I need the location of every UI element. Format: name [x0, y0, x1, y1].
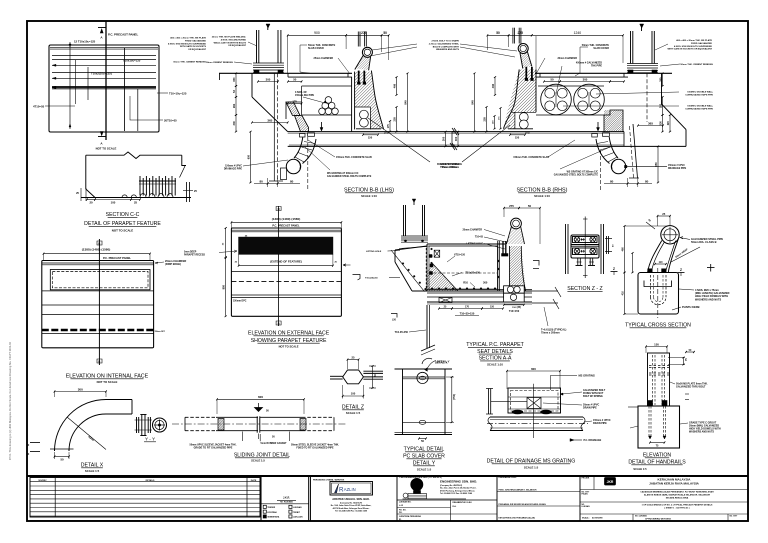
svg-text:P.C. PRECAST PANEL: P.C. PRECAST PANEL [108, 33, 138, 37]
svg-text:DETAIL Y: DETAIL Y [437, 360, 450, 364]
grating clamp bolts [512, 410, 524, 415]
seat detail top dim [504, 207, 519, 209]
svg-text:LIFTING HOLE: LIFTING HOLE [366, 251, 382, 253]
svg-text:110: 110 [659, 261, 664, 264]
svg-text:(750): (750) [452, 394, 456, 400]
svg-text:No. 12A, Jalan Setia Prima U13: No. 12A, Jalan Setia Prima U13/P, Setia … [331, 504, 372, 507]
detail Z stub lines [330, 375, 343, 377]
svg-text:275: 275 [518, 31, 524, 35]
svg-text:350: 350 [232, 77, 236, 82]
svg-text:LAIN-LAIN: LAIN-LAIN [293, 516, 303, 519]
svg-text:R.A.: R.A. [453, 505, 457, 508]
Y-Y side bars [136, 417, 138, 433]
consultant sign panel [579, 476, 581, 521]
svg-text:GRADE TO FIT GALVANIZED PIPE: GRADE TO FIT GALVANIZED PIPE [194, 447, 233, 450]
svg-text:JABATAN KERJA RAYA MALAYSIA: JABATAN KERJA RAYA MALAYSIA [649, 482, 700, 486]
extend of feature dim [239, 265, 333, 267]
LHS right dim chains [396, 77, 398, 95]
svg-text:(35): (35) [525, 132, 530, 135]
svg-text:20mm THK. MS PLATE WELDED,: 20mm THK. MS PLATE WELDED, [212, 36, 247, 39]
svg-text:LUKISAN: LUKISAN [582, 505, 591, 508]
handrail post [648, 353, 670, 406]
JKR logo [605, 478, 616, 486]
svg-text:400 x 400 x 20mm THK. MS PLATE: 400 x 400 x 20mm THK. MS PLATE [676, 39, 712, 42]
svg-text:LUKISAN NO.: LUKISAN NO. [399, 501, 412, 504]
section Z-Z rails [565, 224, 567, 274]
svg-text:BOLT W/ SPRING: BOLT W/ SPRING [583, 395, 603, 398]
svg-text:40170 Shah Alam, Selangor Daru: 40170 Shah Alam, Selangor Darul Ehsan. [333, 507, 370, 510]
svg-text:P.C. PRECAST PANEL: P.C. PRECAST PANEL [103, 256, 131, 260]
LHS slab right end dim 300 [445, 132, 447, 147]
RHS precast panel elevation [630, 31, 632, 64]
seat detail panel inner face [497, 241, 499, 291]
svg-text:B: B [278, 207, 280, 211]
svg-text:DRAINAGE PIPE: DRAINAGE PIPE [668, 167, 687, 170]
svg-text:80: 80 [260, 179, 264, 183]
svg-text:T10=10c=125: T10=10c=125 [169, 92, 187, 96]
svg-text:AZLIN: AZLIN [344, 487, 356, 492]
architect RAZLIN panel [310, 476, 312, 521]
LHS 3 pipes pyramid [319, 108, 326, 115]
svg-text:REKABENTUK OLEH: REKABENTUK OLEH [453, 501, 473, 504]
svg-text:255: 255 [482, 117, 486, 122]
RHS deck right edge [661, 73, 663, 104]
svg-text:255: 255 [392, 117, 396, 122]
svg-text:150mm THK. CONCRETE SLAB: 150mm THK. CONCRETE SLAB [336, 156, 372, 159]
RHS bottom dim 80/80 [604, 183, 652, 185]
LHS post neck and top circle [362, 47, 372, 57]
external face dashed line [231, 280, 341, 282]
plan view of precast parapet panel [49, 45, 159, 132]
handrail right dims [683, 358, 685, 365]
svg-text:20: 20 [89, 200, 93, 204]
RHS deck top line [535, 72, 672, 74]
svg-text:Y - Y: Y - Y [145, 437, 155, 442]
svg-text:PENGARAH JKR NEGERI SELANGOR D: PENGARAH JKR NEGERI SELANGOR DARUL EHSAN [499, 503, 547, 506]
cross section anchor U bracket [644, 281, 672, 287]
seat detail parapet post [511, 218, 522, 229]
svg-text:410: 410 [621, 291, 624, 296]
title block top heavy line [27, 475, 748, 477]
svg-text:330: 330 [658, 121, 662, 126]
svg-text:SCALE 1:10: SCALE 1:10 [487, 363, 503, 367]
cross section base block [638, 273, 679, 315]
svg-text:SCALE 1:10: SCALE 1:10 [534, 194, 550, 198]
slab cover lifting hole circle [417, 372, 428, 383]
svg-text:50: 50 [496, 31, 500, 35]
svg-text:TENDER: TENDER [267, 507, 275, 509]
svg-text:SCALE 1:5: SCALE 1:5 [633, 467, 647, 471]
LHS precast panel elevation above deck [256, 30, 258, 63]
svg-text:1240: 1240 [574, 31, 582, 35]
sliding joint coupling gap [256, 416, 258, 432]
svg-text:CORRUGATED HDPE PIPE: CORRUGATED HDPE PIPE [685, 93, 713, 96]
svg-text:350: 350 [658, 77, 662, 82]
RHS opening lines [538, 85, 604, 87]
svg-text:J.K.R.: J.K.R. [283, 497, 290, 500]
svg-text:50: 50 [383, 31, 387, 35]
svg-text:OR EQUIVALENT: OR EQUIVALENT [228, 44, 246, 47]
internal face lines [42, 290, 154, 292]
svg-text:P.E.: P.E. [399, 512, 403, 514]
svg-text:DRAINAGE PIPE: DRAINAGE PIPE [224, 168, 243, 171]
svg-text:50mm CEMENT RENDING: 50mm CEMENT RENDING [206, 62, 233, 64]
svg-text:150mm # UPVC: 150mm # UPVC [668, 165, 685, 167]
LHS deck slab band [288, 131, 455, 133]
RHS pipe hidden centerline [600, 150, 602, 190]
svg-text:150MM # DOUBLE WALL: 150MM # DOUBLE WALL [687, 91, 713, 94]
svg-text:T10x2(10c=125): T10x2(10c=125) [91, 72, 112, 76]
svg-text:T10x(10)=50: T10x(10)=50 [365, 278, 378, 280]
svg-text:T10x35=150: T10x35=150 [465, 271, 480, 275]
Y-Y circle [153, 418, 167, 432]
LHS drainage elbow pipe with end circle [303, 139, 317, 164]
svg-text:WS GRATING AT 300mm C/C: WS GRATING AT 300mm C/C [327, 172, 359, 175]
svg-text:ENGINEERING SDN. BHD.: ENGINEERING SDN. BHD. [440, 479, 477, 483]
svg-text:6T10=150: 6T10=150 [454, 254, 466, 257]
svg-text:WASHERS AND NUTS: WASHERS AND NUTS [695, 298, 721, 301]
RHS parapet drain holes [519, 113, 528, 122]
svg-text:849: 849 [403, 100, 407, 105]
seat detail bottom slab rows [427, 289, 532, 291]
svg-text:4 NOS. M16 ANCHORED: 4 NOS. M16 ANCHORED [221, 38, 247, 41]
svg-text:2 NOS. BOLT TO U SHAPE: 2 NOS. BOLT TO U SHAPE [431, 40, 459, 43]
RHS dim chains left [474, 73, 476, 131]
grating side frame [488, 389, 490, 415]
svg-text:50: 50 [421, 439, 424, 443]
svg-text:Tel: 03-8060 1133 Fax: 03-806: Tel: 03-8060 1133 Fax: 03-8060 1144 [440, 492, 473, 495]
RHS edge beam elevation [633, 124, 638, 178]
LHS grating bolt arrow [321, 122, 323, 130]
seat detail inner lines [429, 246, 498, 289]
svg-text:150mm DPC: 150mm DPC [233, 300, 247, 302]
svg-text:300: 300 [583, 77, 588, 81]
svg-text:R10: R10 [463, 280, 468, 284]
svg-text:KETUA PENOLONG PENGARAH (JALAN: KETUA PENOLONG PENGARAH (JALAN) [499, 517, 536, 520]
detail X bottom dim [55, 456, 70, 458]
sliding joint pipe [185, 416, 216, 418]
RHS big pipes 450mm with HDPE ducts [541, 84, 572, 115]
svg-text:DATE: DATE [251, 479, 257, 482]
svg-text:PWD ENGINEERING SDN. BHD. (CO.: PWD ENGINEERING SDN. BHD. (CO. 456789-X) [400, 476, 443, 479]
svg-text:50: 50 [60, 457, 64, 461]
svg-text:600: 600 [531, 367, 536, 371]
svg-text:20mm CHAMFER: 20mm CHAMFER [557, 57, 577, 60]
detail X callout [422, 358, 432, 364]
svg-text:SCALE 1:5: SCALE 1:5 [524, 466, 539, 470]
svg-text:L-05: L-05 [399, 505, 403, 507]
svg-text:NOT TO SCALE: NOT TO SCALE [112, 229, 134, 233]
svg-text:( SHEET 1 : CD/TYP/2.01 ): ( SHEET 1 : CD/TYP/2.01 ) [665, 508, 690, 510]
svg-text:50: 50 [293, 77, 297, 81]
svg-text:150mm DPC: 150mm DPC [155, 331, 166, 333]
svg-text:150mm # UPVC: 150mm # UPVC [225, 166, 242, 168]
svg-text:TERBIT: TERBIT [293, 512, 301, 514]
svg-text:X: X [28, 452, 30, 456]
svg-text:170: 170 [465, 305, 470, 308]
seat detail main outline [427, 243, 505, 245]
external face panel rectangle [231, 228, 341, 316]
svg-text:150mm THK. CONCRETE SLAB: 150mm THK. CONCRETE SLAB [513, 156, 549, 159]
panel joint line [124, 48, 126, 131]
svg-text:150: 150 [515, 135, 520, 139]
RHS pipe leader dot [625, 165, 627, 167]
svg-text:JURUTERA PERUNDING: JURUTERA PERUNDING [399, 515, 422, 518]
svg-text:NOT TO SCALE: NOT TO SCALE [279, 345, 299, 349]
svg-text:20T10=05: 20T10=05 [164, 119, 177, 123]
svg-text:MS GRATING: MS GRATING [579, 374, 595, 378]
RAZLIN logo [335, 484, 339, 493]
svg-text:150: 150 [654, 342, 659, 346]
svg-text:WITH GATE IN SOCKETS: WITH GATE IN SOCKETS [180, 45, 207, 48]
svg-text:ARKITEK UNGGUL SDN. BHD.: ARKITEK UNGGUL SDN. BHD. [332, 497, 370, 501]
svg-text:NOT TO SCALE: NOT TO SCALE [97, 380, 118, 384]
svg-text:P.C. DRAINAGE: P.C. DRAINAGE [584, 439, 602, 442]
svg-text:25: 25 [662, 212, 665, 216]
svg-text:Z: Z [613, 267, 615, 271]
svg-text:GALVANIZED STEEL BOLTS COMPLET: GALVANIZED STEEL BOLTS COMPLETE [554, 174, 599, 177]
svg-text:4 NOS. M16 MS BOLTS SUSPENDED: 4 NOS. M16 MS BOLTS SUSPENDED [168, 42, 206, 45]
svg-text:B: B [98, 241, 100, 245]
svg-text:LUKISAN: LUKISAN [293, 506, 302, 509]
RHS grating bolt arrow [597, 122, 599, 130]
internal face recess [50, 270, 150, 290]
seat detail left wall below [426, 305, 428, 348]
svg-text:80: 80 [290, 179, 294, 183]
svg-text:P.C. PRECAST PANEL: P.C. PRECAST PANEL [272, 224, 300, 228]
seat detail precast post [403, 205, 405, 236]
svg-text:4T10=05: 4T10=05 [33, 105, 45, 109]
svg-text:WS GRATING AT 300mm C/C: WS GRATING AT 300mm C/C [567, 171, 599, 174]
svg-text:WITH GATE IN SOCKETS OR EQUIVA: WITH GATE IN SOCKETS OR EQUIVALENT [667, 48, 712, 51]
svg-text:4 NOS. M16 MS BOLTS SUSPENDED: 4 NOS. M16 MS BOLTS SUSPENDED [674, 45, 712, 48]
svg-text:NO. LUKISAN: NO. LUKISAN [635, 515, 647, 518]
svg-text:PARAPET RECESS: PARAPET RECESS [184, 254, 205, 257]
svg-text:SCALE 1:10: SCALE 1:10 [361, 194, 377, 198]
grating assembly [508, 388, 561, 413]
section Z-Z bolt stems below [577, 258, 579, 266]
texture waves [122, 195, 136, 198]
LHS post anchor bolts [358, 71, 360, 84]
svg-text:SECARA REKA & BINA: SECARA REKA & BINA [666, 496, 689, 499]
seat slab right break [532, 290, 558, 292]
svg-text:80: 80 [645, 179, 649, 183]
RHS drainage elbow pipe with end circle [596, 139, 610, 164]
detail X radius leader [67, 417, 106, 450]
svg-text:FIXED GALVANIZED: FIXED GALVANIZED [185, 39, 206, 42]
svg-text:P.T.O. This drawing is (c) JKR: P.T.O. This drawing is (c) JKR Malaysia.… [8, 341, 12, 460]
grating top dim [507, 370, 560, 372]
svg-text:25mm CHAMFER: 25mm CHAMFER [462, 228, 482, 231]
svg-text:T10x10c=125: T10x10c=125 [123, 59, 141, 63]
svg-text:T10=05: T10=05 [475, 236, 484, 239]
LHS deck top line / cement rending [219, 72, 352, 74]
JKR bottom row [632, 514, 634, 521]
svg-text:300: 300 [483, 280, 488, 284]
svg-text:SCALE 1:5: SCALE 1:5 [85, 469, 100, 473]
svg-text:80: 80 [610, 179, 614, 183]
internal face panel rectangle [42, 261, 154, 348]
svg-text:50mm DIA. CLASS B: 50mm DIA. CLASS B [691, 240, 717, 244]
sliding joint dims [217, 398, 304, 400]
svg-text:600: 600 [258, 395, 263, 399]
svg-text:650: 650 [654, 162, 658, 167]
svg-text:SCALE 1:5: SCALE 1:5 [251, 459, 265, 463]
svg-text:50mm THK. CEMENT RENDING: 50mm THK. CEMENT RENDING [680, 64, 713, 66]
seat detail shear key [434, 250, 440, 257]
revision table [30, 478, 260, 518]
svg-text:25: 25 [134, 200, 138, 204]
svg-text:220: 220 [667, 121, 670, 126]
RHS post base plate [508, 128, 533, 130]
svg-text:150mm DIA PIPE: 150mm DIA PIPE [295, 94, 314, 97]
detail Z dims [348, 359, 359, 361]
LHS opening & pipe shelf [302, 85, 352, 87]
LHS pipe hidden centerline [307, 137, 309, 190]
svg-text:900: 900 [314, 31, 320, 35]
svg-text:400 x 400 x 20mm THK. MS PLATE: 400 x 400 x 20mm THK. MS PLATE [170, 37, 206, 40]
svg-text:25: 25 [352, 355, 355, 359]
svg-text:FIXED TO FIT GALVANIZED PIPE: FIXED TO FIT GALVANIZED PIPE [296, 447, 334, 450]
svg-text:50: 50 [528, 204, 532, 208]
svg-text:150MM # DOUBLE WALL: 150MM # DOUBLE WALL [687, 105, 713, 108]
svg-text:SLAB COVER: SLAB COVER [308, 47, 324, 50]
external face section line B [278, 206, 280, 326]
section B-B RHS top dimension line [487, 34, 508, 36]
cross section base U slot [650, 275, 652, 297]
LHS left dim chain [235, 73, 237, 86]
slab cover bottom [403, 421, 446, 423]
svg-text:47100 Puchong, Selangor Darul: 47100 Puchong, Selangor Darul Ehsan. [440, 489, 476, 492]
svg-text:GALVANIZED THRU BOLT: GALVANIZED THRU BOLT [676, 386, 706, 389]
svg-text:B: B [98, 359, 100, 363]
detail X left section marks [30, 442, 40, 444]
svg-text:365: 365 [648, 121, 653, 125]
LHS grating flanges [300, 134, 306, 138]
svg-text:(1380) (1480) (1580): (1380) (1480) (1580) [272, 217, 301, 221]
svg-text:PELAN: PELAN [582, 493, 589, 496]
slab cover body [403, 369, 446, 435]
svg-text:JKR: JKR [607, 480, 614, 484]
section Z-Z bolt rows [573, 237, 598, 243]
svg-text:CADANGAN MEMBINA JALAN PERSIAR: CADANGAN MEMBINA JALAN PERSIARAN 1 FLY B… [640, 491, 714, 494]
svg-text:BOLTS COMPLETE WITH: BOLTS COMPLETE WITH [433, 46, 460, 48]
svg-text:50mm THK. CEMENT RENDING: 50mm THK. CEMENT RENDING [173, 62, 206, 64]
svg-text:PARAPET OPENING: PARAPET OPENING [440, 163, 462, 166]
svg-text:(EXTEND OF FEATURE): (EXTEND OF FEATURE) [270, 259, 302, 263]
svg-text:OR EQUIVALENT: OR EQUIVALENT [188, 48, 206, 51]
section C-C parapet texture profile [86, 152, 182, 159]
svg-text:PROJEK: PROJEK [582, 477, 590, 479]
RHS slab left end dim 300 [457, 132, 459, 147]
svg-text:AS SHOWN: AS SHOWN [592, 516, 603, 519]
svg-text:(DRIP EDGE): (DRIP EDGE) [165, 262, 181, 266]
svg-text:275: 275 [509, 204, 514, 208]
svg-text:WASHERS AND NUTS: WASHERS AND NUTS [436, 48, 459, 51]
svg-text:T10=35=150: T10=35=150 [460, 311, 475, 315]
svg-text:CORRUGATED HDPE PIPE: CORRUGATED HDPE PIPE [685, 107, 713, 110]
svg-text:466: 466 [491, 83, 495, 88]
svg-text:SEMENTARA: SEMENTARA [267, 516, 279, 519]
svg-text:282: 282 [232, 103, 236, 108]
svg-text:WASHERS AND NUTS: WASHERS AND NUTS [689, 431, 714, 434]
svg-text:T10=150: T10=150 [509, 309, 520, 313]
rebar dim verticals [69, 42, 71, 129]
engineer tree logo [411, 478, 423, 490]
section B-B LHS top dimension line [288, 34, 346, 36]
svg-text:466: 466 [392, 83, 396, 88]
svg-text:DRAIN PIPE: DRAIN PIPE [593, 422, 607, 425]
section line A-A vertical [105, 21, 107, 140]
svg-text:Z: Z [680, 268, 682, 272]
cross section Z markers [611, 271, 618, 273]
detail X pipe bend [55, 400, 133, 452]
slab cover top line [395, 368, 453, 370]
svg-text:100: 100 [111, 200, 116, 204]
svg-text:12 T10x10c=125: 12 T10x10c=125 [74, 40, 96, 44]
LHS handrail verticals [357, 32, 359, 47]
svg-text:150: 150 [490, 305, 495, 308]
LHS post base plate [356, 128, 381, 130]
svg-text:WELD-CAST IN WITH M BOLTS: WELD-CAST IN WITH M BOLTS [214, 41, 247, 44]
svg-text:DISEDIAKAN OLEH:: DISEDIAKAN OLEH: [499, 476, 518, 479]
cross section anchor bolts [648, 269, 653, 273]
RHS post neck and circle [518, 44, 528, 54]
cross section dims [658, 215, 671, 217]
svg-text:SCALE 1:5: SCALE 1:5 [417, 468, 432, 472]
svg-text:PLINTH KERB: PLINTH KERB [682, 305, 700, 309]
slab cover dims [451, 377, 453, 422]
cross section post body [648, 241, 662, 273]
svg-text:No. 23-2, Jalan Puteri 2/4, Ba: No. 23-2, Jalan Puteri 2/4, Bandar Puter… [440, 487, 477, 490]
section Z-Z centerline [584, 217, 586, 279]
svg-text:NO. RUJUKAN: NO. RUJUKAN [280, 501, 293, 504]
svg-text:THK PIPE: THK PIPE [591, 65, 602, 68]
svg-text:(Company No. 543210-P): (Company No. 543210-P) [340, 501, 363, 504]
seat detail anchor bolts [502, 241, 504, 256]
svg-text:300: 300 [266, 77, 271, 81]
seat detail bottom dims [439, 308, 452, 310]
svg-text:(35): (35) [517, 306, 521, 309]
svg-text:# 20mm GALVANIZED STEEL: # 20mm GALVANIZED STEEL [429, 42, 460, 45]
LHS edge beam elevation [273, 73, 275, 181]
grating pipe below [490, 416, 583, 418]
svg-text:50: 50 [550, 77, 554, 81]
section Z-Z right flange [606, 236, 608, 254]
external face vertical dims [225, 228, 227, 257]
svg-text:LIFTING HOLE: LIFTING HOLE [466, 242, 483, 245]
svg-text:365: 365 [267, 118, 272, 122]
svg-text:DETAILS: DETAILS [146, 479, 155, 482]
svg-text:25mm CHAMFER: 25mm CHAMFER [314, 57, 334, 60]
svg-text:SLAB COVER: SLAB COVER [593, 47, 609, 50]
handrail base block [638, 406, 680, 448]
checkbox status panel [261, 476, 309, 521]
svg-text:PENG. JURUTERA DAERAH K. SELAN: PENG. JURUTERA DAERAH K. SELANGOR [499, 488, 538, 491]
svg-text:SCALE 1:5: SCALE 1:5 [346, 411, 361, 415]
svg-text:ALAM KE KEBUN JAWA, DAERAH KUA: ALAM KE KEBUN JAWA, DAERAH KUALA SELANGO… [644, 494, 711, 497]
svg-text:848: 848 [470, 100, 474, 105]
slab cover detail Y callout [426, 361, 436, 372]
svg-text:75mm x 200mm: 75mm x 200mm [541, 332, 560, 335]
svg-text:X: X [28, 443, 30, 447]
svg-text:1 OF GUILD BRIDGE ( OF NO. 2 ): 1 OF GUILD BRIDGE ( OF NO. 2 ) TYPICAL P… [642, 503, 713, 506]
svg-text:330: 330 [232, 121, 236, 126]
handrail top dim [646, 346, 667, 348]
svg-text:NOT TO SCALE: NOT TO SCALE [96, 147, 117, 151]
svg-text:460: 460 [621, 247, 624, 252]
svg-text:T10-05-250: T10-05-250 [395, 330, 409, 334]
